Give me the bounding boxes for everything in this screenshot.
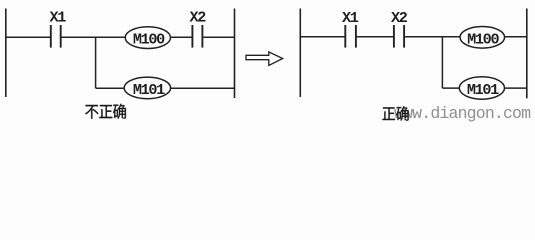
svg-text:X1: X1 [342,9,359,27]
branch junction wire left diagram [96,37,235,89]
left power rail (correct diagram) [299,9,301,98]
contact X1 right diagram [345,25,356,48]
caption incorrect (Chinese) [85,104,126,119]
right power rail (incorrect diagram) [234,9,236,99]
left power rail (incorrect diagram) [5,9,7,98]
svg-text:M100: M100 [133,30,165,48]
coil M101 left diagram [124,77,170,99]
svg-text:X2: X2 [391,9,408,27]
svg-text:M100: M100 [467,30,499,48]
svg-text:X1: X1 [50,9,67,27]
contact X2 right diagram [394,25,404,48]
svg-text:M101: M101 [133,81,165,99]
coil M101 right diagram [459,77,504,99]
branch junction wire right diagram [442,37,526,88]
coil M100 left diagram [125,27,170,49]
caption correct (Chinese) [383,106,409,121]
contact X2 left diagram [192,25,202,48]
svg-text:X2: X2 [190,9,207,27]
wire main rung left diagram [6,36,235,38]
wire main rung right diagram [300,36,526,38]
arrow between diagrams [246,52,283,66]
svg-text:M101: M101 [467,81,499,99]
right power rail (correct diagram) [526,9,528,99]
coil M100 right diagram [460,27,505,49]
contact X1 left diagram [51,25,61,48]
svg-text:www.diangon.com: www.diangon.com [394,104,531,123]
